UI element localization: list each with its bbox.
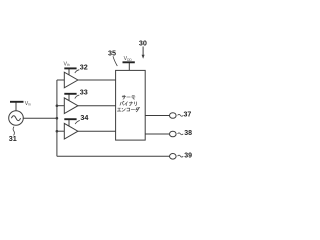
junction dot at source wire <box>56 117 59 120</box>
wire comparator 32 output to encoder <box>78 79 116 81</box>
comparator 32 threshold stem <box>68 68 70 75</box>
wire comparator 33 output to encoder <box>78 105 116 107</box>
wire bus to comparator 33 <box>57 105 64 107</box>
VDD stem <box>128 62 130 70</box>
tilde leader 37 <box>178 114 184 116</box>
VDD bar <box>123 61 135 63</box>
svg-text:35: 35 <box>108 49 116 58</box>
leader line 32 <box>75 70 80 73</box>
encoder text line1: sa-mo (thermo) <box>122 95 135 99</box>
wire source to bus <box>23 117 57 119</box>
leader line 34 <box>75 121 80 125</box>
svg-text:30: 30 <box>139 38 147 47</box>
encoder box U35 <box>116 70 146 140</box>
bus wire (vertical) <box>56 80 58 156</box>
comparator 33 threshold bar <box>64 93 76 95</box>
wire bus to comparator 32 <box>57 79 64 81</box>
svg-text:34: 34 <box>80 113 88 122</box>
terminal 39 <box>170 154 177 160</box>
Vin terminal bar <box>10 101 24 103</box>
svg-text:37: 37 <box>184 112 192 119</box>
leader line 31 <box>13 127 14 136</box>
comparator 34 threshold bar <box>64 118 76 120</box>
comparator 34 threshold stem <box>68 119 70 126</box>
tilde leader 38 <box>178 133 184 135</box>
arrowhead 30 <box>142 55 145 59</box>
signal source 31 <box>9 111 24 126</box>
leader line 33 <box>75 95 80 99</box>
comparator 32 triangle <box>64 72 78 88</box>
svg-text:38: 38 <box>184 130 192 137</box>
wire encoder to output 38 <box>145 133 170 135</box>
sine wave inside source <box>11 116 20 121</box>
svg-text:32: 32 <box>80 62 88 71</box>
wire bus to comparator 34 <box>57 130 64 132</box>
svg-text:33: 33 <box>80 88 88 97</box>
wire comparator 34 output to encoder <box>78 130 116 132</box>
svg-text:39: 39 <box>184 152 192 159</box>
encoder text line3: e-n-ko-da (encoder) <box>117 107 139 112</box>
terminal 37 <box>170 113 177 119</box>
wire encoder to output 37 <box>145 115 169 117</box>
junction dot at comparator 34 tap <box>56 130 59 133</box>
arrow 30 <box>142 47 144 56</box>
comparator 33 triangle <box>64 98 78 114</box>
junction dot at comparator 33 tap <box>56 104 59 107</box>
leader line 35 <box>113 56 117 66</box>
terminal 38 <box>170 131 177 137</box>
comparator 32 threshold bar <box>64 67 76 69</box>
comparator 34 triangle <box>64 123 78 139</box>
comparator 33 threshold stem <box>68 94 70 101</box>
svg-text:31: 31 <box>9 134 17 143</box>
wire bus bottom to output 39 <box>57 155 170 157</box>
encoder text line2: ba-i-na-ri (binary) <box>120 101 137 106</box>
tilde leader 39 <box>178 155 184 157</box>
Vin terminal stem <box>15 102 17 111</box>
